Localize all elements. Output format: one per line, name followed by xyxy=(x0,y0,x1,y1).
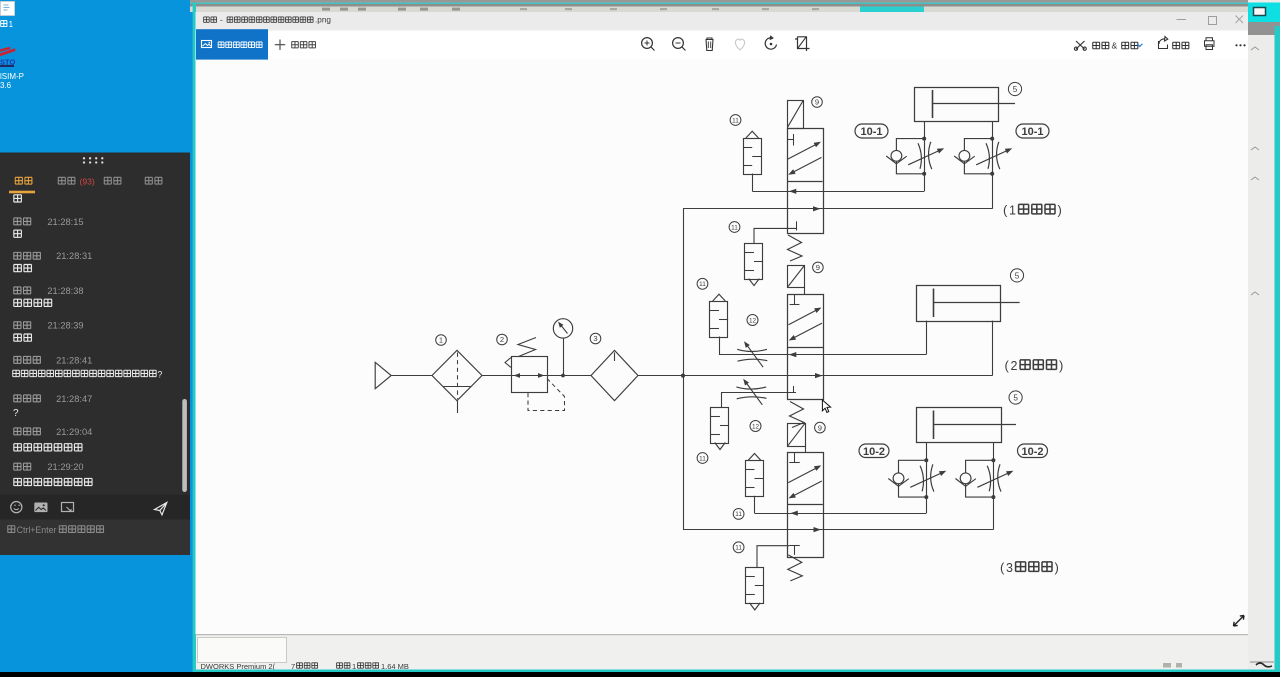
wire cylinder right port type2 xyxy=(992,321,994,376)
valve 9 type2 body xyxy=(788,295,824,400)
throttle 12 upper xyxy=(737,349,767,351)
chat panel drag dots xyxy=(83,157,85,159)
photos title bar xyxy=(196,12,1249,31)
label 9 type1 xyxy=(812,97,823,108)
speed controller 10-1 right xyxy=(964,139,992,174)
svg-text:21:29:04: 21:29:04 xyxy=(56,427,92,437)
top background window strip xyxy=(190,0,1248,3)
chat input hint xyxy=(8,525,15,532)
label 3 xyxy=(590,333,601,344)
wire valve to lower silencer type1 xyxy=(754,228,796,243)
top strip icon specks xyxy=(322,8,330,11)
wire cylinder right port type1 xyxy=(992,121,994,139)
wire cylinder left port type2 xyxy=(926,321,928,355)
screenshot icon xyxy=(62,503,74,512)
edit & create xyxy=(1076,41,1085,49)
wire supply type2 xyxy=(683,375,993,377)
silencer 11 type2 upper xyxy=(710,302,728,338)
wire valve to lower silencer type3 xyxy=(757,546,789,568)
valve 9 type3 body xyxy=(788,453,824,558)
photos window bottom edge xyxy=(196,634,1249,635)
svg-text:21:29:20: 21:29:20 xyxy=(47,462,83,472)
chat message name/time xyxy=(14,395,21,403)
photos title text xyxy=(204,17,210,23)
mouse cursor xyxy=(822,400,830,412)
svg-text:&: & xyxy=(1112,41,1118,51)
photos window xyxy=(196,12,1249,635)
chat panel background xyxy=(0,153,190,556)
chat message text xyxy=(14,334,22,342)
see all photos button xyxy=(196,29,268,59)
throttle 12 lower xyxy=(736,387,766,389)
svg-text:9: 9 xyxy=(815,98,819,107)
left teal window edge xyxy=(193,3,196,673)
valve 9 type2 return spring xyxy=(790,402,805,428)
chat message text xyxy=(14,264,22,272)
heart icon xyxy=(735,39,744,50)
svg-text:11: 11 xyxy=(735,545,742,552)
wire lower exhaust type2 xyxy=(721,392,796,394)
solenoid pilot of valve 9 type1 xyxy=(788,101,804,129)
active tab underline xyxy=(9,191,35,194)
manifold vertical wire xyxy=(683,209,685,530)
svg-text:21:28:41: 21:28:41 xyxy=(56,355,92,365)
svg-text:11: 11 xyxy=(731,224,738,231)
label 5 type3 xyxy=(1009,391,1022,404)
wire source to filter xyxy=(391,375,432,377)
svg-text:11: 11 xyxy=(735,511,742,518)
svg-text:): ) xyxy=(1055,560,1059,575)
caption buttons xyxy=(1177,19,1187,21)
label 1 xyxy=(436,335,447,346)
desktop file icon xyxy=(1,2,15,16)
image icon xyxy=(34,503,47,513)
label 10-1 right xyxy=(1016,124,1049,138)
svg-text:(: ( xyxy=(1000,560,1005,575)
svg-text:5: 5 xyxy=(1013,85,1018,94)
fullscreen icon xyxy=(1234,616,1245,627)
label 12 lower xyxy=(750,421,761,432)
wire controller to supply type3 xyxy=(993,497,995,529)
node gauge junction xyxy=(561,374,565,378)
chat message name/time xyxy=(14,356,21,364)
cyan corner of background window xyxy=(1248,3,1280,23)
svg-text:-: - xyxy=(220,15,223,25)
svg-text:21:28:39: 21:28:39 xyxy=(47,321,83,331)
explorer status strip xyxy=(194,634,1280,672)
wire cylinder right port type3 xyxy=(993,442,995,460)
chat message name/time xyxy=(14,287,21,295)
svg-text:21:28:47: 21:28:47 xyxy=(56,394,92,404)
svg-text:1: 1 xyxy=(439,336,443,345)
wire exhaust upper type2 xyxy=(719,354,926,356)
svg-text:1: 1 xyxy=(9,20,14,29)
silencer 11 type2 lower xyxy=(721,392,723,407)
svg-text:?: ? xyxy=(13,408,19,419)
chat message text xyxy=(14,194,22,202)
svg-text:10-2: 10-2 xyxy=(1021,446,1043,458)
label 11 type1 upper xyxy=(730,115,741,126)
share xyxy=(1159,37,1168,49)
solenoid pilot of valve 9 type2 xyxy=(788,266,805,288)
svg-text:2: 2 xyxy=(1011,359,1018,373)
chat message name/time xyxy=(14,463,21,471)
cylinder 5 type1 xyxy=(915,88,999,122)
rotate icon xyxy=(765,38,776,49)
label 10-2 right xyxy=(1018,444,1048,458)
svg-text:21:28:15: 21:28:15 xyxy=(47,217,83,227)
festo icon xyxy=(0,49,15,57)
chat message name/time xyxy=(14,321,21,329)
svg-text:9: 9 xyxy=(816,263,820,272)
chat scrollbar xyxy=(182,399,187,492)
svg-text:21:28:31: 21:28:31 xyxy=(56,251,92,261)
valve 9 type3 return spring xyxy=(788,555,803,581)
chat toolbar row xyxy=(0,495,190,520)
valve 9 type2 port marks xyxy=(794,294,796,304)
svg-text:?: ? xyxy=(157,370,162,380)
valve 9 type1 port marks xyxy=(787,139,794,141)
silencer 11 type3 upper xyxy=(746,461,764,497)
wire exhaust type3 xyxy=(755,513,927,515)
svg-text:3: 3 xyxy=(593,334,597,343)
wire cylinder left port type1 xyxy=(924,121,926,139)
wire regulator to lubricator xyxy=(547,375,591,377)
chat message text xyxy=(14,230,22,238)
chat message text xyxy=(14,443,22,451)
bottom teal window edge xyxy=(194,670,1280,673)
label 11 type3 upper xyxy=(733,509,744,520)
wire controller to supply type1 xyxy=(992,174,994,209)
cylinder 5 type3 xyxy=(917,408,1002,443)
svg-text:1: 1 xyxy=(1009,203,1016,217)
speed controller 10-1 left xyxy=(896,139,924,174)
zoom out icon xyxy=(673,38,684,49)
regulator pilot dashed line xyxy=(528,379,565,411)
wire supply type1 xyxy=(683,208,992,210)
label 10-1 left xyxy=(855,124,888,138)
svg-text:10-1: 10-1 xyxy=(1021,126,1043,138)
crop icon xyxy=(795,37,810,52)
valve 9 type1 return spring xyxy=(788,235,803,261)
pressure gauge xyxy=(563,338,565,376)
node manifold junction xyxy=(681,374,685,378)
wire controller to exhaust type3 xyxy=(926,497,928,513)
emoji icon xyxy=(11,502,22,513)
svg-text:2: 2 xyxy=(500,335,504,344)
chat message name/time xyxy=(14,252,21,260)
chat message text xyxy=(13,370,20,377)
chat message name/time xyxy=(14,428,21,436)
svg-text:12: 12 xyxy=(749,317,757,324)
label 2 xyxy=(497,334,508,345)
svg-text:12: 12 xyxy=(752,423,760,430)
chat message text xyxy=(14,478,22,486)
wire supply type3 xyxy=(683,529,993,531)
svg-text:3: 3 xyxy=(1006,561,1013,575)
send icon xyxy=(155,503,167,515)
speed controller 10-2 right xyxy=(966,460,994,497)
wire exhaust type1 xyxy=(752,191,924,193)
delete icon xyxy=(706,38,714,51)
label 9 type2 xyxy=(813,262,824,273)
svg-text:11: 11 xyxy=(732,117,739,124)
label 11 type2 lower xyxy=(697,453,708,464)
chat tabs xyxy=(15,177,22,184)
chat message text xyxy=(14,299,22,307)
valve 9 type3 port marks xyxy=(794,452,796,462)
svg-text:.png: .png xyxy=(315,16,331,25)
filter F1 xyxy=(432,350,482,400)
label 10-2 left xyxy=(859,444,889,458)
label 11 type2 upper xyxy=(697,278,708,289)
silencer 11 type1 upper xyxy=(744,139,762,175)
right sliver teal edge xyxy=(1275,26,1280,672)
svg-text:11: 11 xyxy=(699,455,706,462)
speed controller 10-2 left xyxy=(899,460,927,497)
right background window sliver xyxy=(1248,0,1280,672)
label 11 type3 lower xyxy=(733,542,744,553)
label 9 type3 xyxy=(815,422,826,433)
svg-text:10-1: 10-1 xyxy=(860,126,882,138)
svg-text:(: ( xyxy=(1005,358,1010,373)
svg-text:21:28:38: 21:28:38 xyxy=(47,286,83,296)
wire filter to regulator xyxy=(482,375,511,377)
wire cylinder left port type3 xyxy=(926,442,928,460)
toolbar background xyxy=(196,31,1249,59)
label 5 type2 xyxy=(1010,269,1023,282)
svg-text:lSIM-P: lSIM-P xyxy=(0,72,24,81)
right sliver widgets xyxy=(1251,47,1259,50)
svg-text:(: ( xyxy=(1003,202,1008,217)
svg-text:9: 9 xyxy=(818,423,822,432)
lubricator F3 xyxy=(591,350,638,400)
svg-text:5: 5 xyxy=(1013,393,1018,402)
svg-text:5: 5 xyxy=(1015,271,1020,280)
wire controller to exhaust type1 xyxy=(924,174,926,192)
add to button xyxy=(275,40,285,51)
more xyxy=(1235,44,1237,46)
zoom in icon xyxy=(642,38,653,49)
wire lubricator to manifold xyxy=(638,375,683,377)
svg-text:11: 11 xyxy=(699,281,706,288)
print xyxy=(1205,38,1215,50)
label 11 type1 lower xyxy=(729,222,740,233)
cylinder 5 type2 xyxy=(917,286,1001,322)
svg-text:3.6: 3.6 xyxy=(0,81,12,90)
chat input area xyxy=(0,520,190,556)
svg-text:): ) xyxy=(1058,202,1062,217)
svg-text:10-2: 10-2 xyxy=(863,446,885,458)
air supply source xyxy=(375,362,391,388)
silencer 11 type1 lower xyxy=(745,244,763,280)
svg-text:(93): (93) xyxy=(80,177,95,187)
svg-text:Ctrl+Enter: Ctrl+Enter xyxy=(17,525,57,535)
pressure regulator R2 xyxy=(512,357,548,393)
valve 9 type1 body xyxy=(788,129,824,234)
solenoid pilot of valve 9 type3 xyxy=(788,424,806,447)
svg-text:): ) xyxy=(1059,358,1063,373)
label 5 type1 xyxy=(1008,82,1021,95)
chat message name/time xyxy=(14,218,21,226)
silencer 11 type3 lower xyxy=(746,568,764,604)
desktop file label xyxy=(1,20,7,27)
label 12 upper xyxy=(747,315,758,326)
